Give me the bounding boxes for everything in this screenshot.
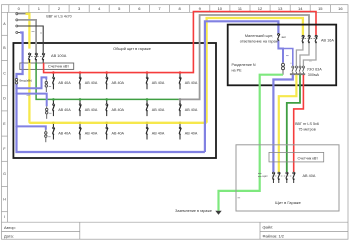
label: small note near supply: [32, 32, 43, 34]
node: N junction row1: [15, 87, 17, 89]
circuit breaker АВ 40А (row 1, #4): [146, 71, 165, 89]
svg-text:H: H: [3, 197, 6, 201]
wire: phase A (yellow) to garage panel: [279, 75, 297, 173]
wire: N feed to row 3 outlet: [17, 126, 46, 129]
svg-text:ВВГ нг LS 5х6: ВВГ нг LS 5х6: [295, 122, 319, 126]
svg-text:АВ 100А: АВ 100А: [51, 53, 67, 58]
svg-text:вкл: вкл: [282, 35, 287, 39]
wire: N (blue) from RCD to garage panel: [273, 75, 292, 173]
terminal: Разделение N на PE: [232, 63, 256, 72]
svg-text:Щит в Гараже: Щит в Гараже: [275, 200, 301, 205]
svg-text:Счетчик кВт: Счетчик кВт: [298, 156, 319, 160]
switch: N disconnect in small panel: [277, 33, 286, 41]
circuit breaker АВ 40А (row 2, #3): [105, 98, 124, 116]
meter: Счетчик кВт (garage): [269, 152, 324, 162]
wire: PE (light green) from splitter down to garage ground: [219, 75, 284, 211]
svg-text:Общий щит в гараже: Общий щит в гараже: [113, 46, 151, 51]
meter: Счетчик кВт (main): [20, 63, 74, 69]
svg-text:АВ 40А: АВ 40А: [152, 81, 165, 85]
circuit breaker АВ 16А (3-pole, small panel): [302, 35, 335, 44]
panel: Общий щит в гараже (enclosure): [13, 43, 216, 158]
wire: phase A yellow bus: [29, 122, 206, 123]
svg-text:АВ 40А: АВ 40А: [85, 131, 98, 135]
svg-text:Маленький щит,: Маленький щит,: [245, 34, 273, 38]
svg-text:10: 10: [218, 6, 223, 11]
terminal: N outlet row 2: [46, 106, 52, 119]
svg-text:АВ 40А: АВ 40А: [152, 131, 165, 135]
panel: Маленький щит, ответвление на гараж: [228, 25, 337, 86]
svg-text:14: 14: [298, 6, 303, 11]
node: supply terminal L1: [16, 13, 26, 15]
circuit breaker АВ 40А (row 1, #1): [52, 71, 71, 89]
svg-text:16: 16: [338, 6, 343, 11]
panel: Щит в Гараже (enclosure): [236, 145, 339, 211]
svg-text:D: D: [3, 97, 6, 101]
wire: phase B jog to RCD pole 3: [300, 44, 309, 66]
wire: N feed to row 2 outlet: [17, 94, 47, 107]
svg-text:ВВГ нг LS 4х70: ВВГ нг LS 4х70: [46, 14, 71, 18]
terminal: N outlet row 3: [45, 130, 51, 143]
svg-text:АВ 40А: АВ 40А: [112, 108, 125, 112]
cable label ВВГ нг LS 5х6 75 метров: [295, 122, 319, 131]
RCD УЗО 63А 300мА (4-pole): [290, 61, 322, 77]
terminal: PE bus in garage panel: [258, 174, 268, 178]
svg-text:АВ 40А: АВ 40А: [152, 108, 165, 112]
svg-text:15: 15: [318, 6, 323, 11]
svg-text:УЗО 63А: УЗО 63А: [307, 68, 322, 72]
svg-text:АВ 40А: АВ 40А: [58, 131, 71, 135]
svg-text:13: 13: [278, 6, 283, 11]
wire: phase A (yellow) from supply down through meter to yellow bus: [26, 14, 30, 122]
svg-text:АВ 40А: АВ 40А: [85, 108, 98, 112]
wire: N feed to row 1 outlet: [17, 77, 47, 88]
node: supply terminal N: [16, 32, 20, 34]
wire: phase B (green) to garage panel: [287, 75, 300, 173]
wire: phase C (black) from supply to main breaker: [18, 26, 43, 53]
circuit breaker АВ 40А (row 3, #4): [146, 122, 165, 140]
circuit breaker АВ 40А (garage, 4-pole): [272, 172, 316, 183]
circuit breaker АВ 40А (row 3, #5): [179, 122, 198, 140]
circuit breaker АВ 40А (row 3, #2): [79, 122, 98, 140]
svg-text:Автор:: Автор:: [4, 225, 16, 230]
node: supply terminal L2: [16, 19, 18, 21]
svg-text:Ввод(кВт): Ввод(кВт): [20, 79, 33, 83]
svg-text:G: G: [3, 172, 6, 176]
svg-text:АВ 40А: АВ 40А: [85, 81, 98, 85]
wire: phase A riser (yellow) to small panel: [207, 18, 303, 123]
svg-text:Файлов: 1/2: Файлов: 1/2: [263, 233, 284, 238]
svg-text:Разделение N: Разделение N: [232, 63, 256, 67]
label: note PEN: [27, 94, 31, 96]
node: N junction row3: [15, 125, 17, 127]
wire: N inside small panel: [278, 41, 283, 63]
circuit breaker АВ 40А (row 1, #5): [179, 71, 198, 89]
svg-text:АВ 40А: АВ 40А: [303, 174, 316, 178]
circuit breaker АВ 40А (row 3, #3): [105, 122, 124, 140]
node: N junction row2: [15, 92, 17, 94]
circuit breaker АВ 40А (row 2, #2): [79, 98, 98, 116]
wire: phase C (red) to garage panel: [294, 75, 304, 173]
svg-text:C: C: [3, 71, 6, 75]
svg-text:АВ 40А: АВ 40А: [185, 131, 198, 135]
circuit breaker АВ 40А (row 2, #4): [146, 98, 165, 116]
svg-text:АВ 16А: АВ 16А: [321, 38, 334, 42]
svg-text:АВ 40А: АВ 40А: [58, 108, 71, 112]
svg-text:щит: щит: [263, 174, 269, 178]
wire: phase B (grey) from supply to main breaker: [18, 20, 36, 53]
terminal: N outlet row 1: [45, 80, 51, 93]
wire: phase C jog to RCD pole 4: [303, 44, 316, 66]
svg-text:ответвление на гараж: ответвление на гараж: [240, 39, 279, 43]
circuit breaker АВ 40А (row 3, #1): [52, 122, 71, 140]
circuit breaker АВ 40А (row 2, #5): [179, 98, 198, 116]
wire: phase B riser (grey) to small panel: [179, 15, 310, 99]
node: supply terminal L3: [16, 25, 18, 27]
wire: neutral N (blue) trunk down left side to bottom N bus: [17, 33, 205, 153]
svg-text:Счетчик кВт: Счетчик кВт: [48, 65, 69, 69]
wire: phase C red bus to small panel: [44, 12, 316, 73]
wire: N branch to RCD pole 1: [283, 49, 293, 66]
ground electrode symbol: [215, 211, 221, 215]
svg-text:файл:: файл:: [263, 225, 274, 230]
svg-text:на PE: на PE: [232, 68, 243, 72]
svg-text:300мА: 300мА: [308, 73, 320, 77]
svg-text:Заземление в гараже: Заземление в гараже: [175, 209, 212, 213]
circuit breaker АВ 40А (row 1, #2): [79, 71, 98, 89]
svg-text:АВ 40А: АВ 40А: [185, 81, 198, 85]
svg-text:АВ 40А: АВ 40А: [112, 131, 125, 135]
svg-text:Дата:: Дата:: [4, 233, 14, 238]
svg-text:АВ 40А: АВ 40А: [185, 108, 198, 112]
circuit breaker АВ 40А (row 2, #1): [52, 98, 71, 116]
wire: neutral riser (blue) to small panel: [205, 21, 279, 152]
wire: phase B green bus: [36, 69, 178, 99]
svg-text:75 метров: 75 метров: [298, 128, 315, 132]
svg-text:I: I: [4, 215, 5, 219]
circuit breaker QF1 АВ 100А (3-pole): [28, 53, 67, 63]
circuit breaker АВ 40А (row 1, #3): [105, 71, 124, 89]
wire: phases through meter: [23, 63, 44, 70]
wire: phase A jog to RCD pole 2: [296, 44, 303, 66]
splitter symbol N/PE: [282, 56, 289, 75]
svg-text:АВ 40А: АВ 40А: [112, 81, 125, 85]
svg-text:АВ 40А: АВ 40А: [58, 81, 71, 85]
switch: N link on trunk: [15, 78, 17, 84]
svg-text:12: 12: [258, 6, 263, 11]
